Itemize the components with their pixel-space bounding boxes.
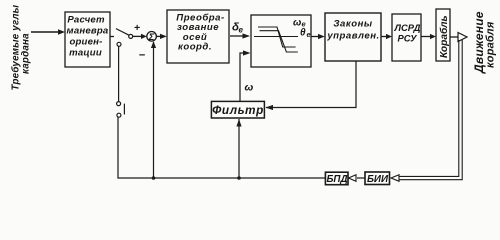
block: Законы управлен. [325, 13, 381, 61]
svg-text:РСУ: РСУ [397, 33, 417, 44]
svg-text:БПД: БПД [326, 174, 347, 185]
junction at summer feedback [152, 176, 156, 180]
svg-text:Корабль: Корабль [438, 15, 450, 58]
block: nonlinearity (phase-plane switch) [251, 15, 311, 67]
svg-text:кардана: кардана [21, 33, 32, 74]
wire: LSRD to ship [421, 36, 431, 38]
wire: input arrow into R1 [31, 31, 60, 33]
wire: bottom line up into filter [238, 119, 240, 178]
wire: nonlinearity to control laws [311, 36, 320, 38]
wire: ship motion feedback (double line) to BII [399, 40, 462, 180]
node: input label "Требуемые углы кардана" (rotated) [11, 4, 32, 90]
block: Расчет маневра ориентации [65, 12, 110, 67]
wire: filter output ω up into nonlinearity block [240, 53, 246, 101]
svg-text:Σ: Σ [148, 32, 155, 43]
switch SW2 (open, on left riser) [117, 46, 125, 117]
svg-text:е: е [307, 30, 311, 39]
svg-text:маневра: маневра [67, 26, 109, 37]
switch SW1 (selector, open) [116, 29, 133, 47]
svg-text:БИИ: БИИ [367, 174, 389, 185]
wire: ship output with hollow arrow [450, 36, 458, 38]
wire: delta_e into nonlinearity block [230, 35, 245, 37]
wire: bottom feedback line from BPD to left riser [118, 117, 325, 178]
svg-text:ЛСРД: ЛСРД [394, 22, 421, 33]
wire: control laws down into filter right side [266, 61, 356, 108]
svg-text:ω: ω [245, 82, 254, 94]
junction at filter feedback [237, 176, 241, 180]
svg-text:управлен.: управлен. [326, 31, 379, 42]
block: Фильтр [211, 101, 264, 118]
svg-text:Законы: Законы [333, 19, 373, 30]
svg-text:Фильтр: Фильтр [212, 103, 264, 117]
wire: block1 output to switch [110, 36, 114, 38]
block: БПД [325, 172, 348, 185]
svg-text:−: − [139, 50, 146, 62]
svg-text:коорд.: коорд. [178, 42, 212, 53]
summing junction Σ [147, 32, 157, 42]
wire: control laws to LSRD [381, 36, 387, 38]
block: Преобразование осей коорд. [167, 10, 229, 63]
svg-text:тации: тации [69, 47, 102, 58]
svg-text:ориен-: ориен- [69, 37, 102, 48]
wire: feedback up into summer (minus input) [153, 42, 155, 178]
wire: summer to block2 [156, 35, 162, 37]
block: ЛСРД РСУ [392, 14, 421, 61]
axis line [254, 36, 298, 38]
wire: BII to BPD with open arrow [357, 177, 365, 179]
curve 1 [258, 27, 296, 47]
svg-text:+: + [134, 22, 140, 34]
wire: switch to summer [133, 35, 142, 37]
svg-text:е: е [239, 26, 244, 35]
node: output label "Движение корабля" (rotated) [472, 11, 497, 74]
block: Корабль (ship) [436, 9, 450, 61]
svg-text:Расчет: Расчет [67, 15, 105, 26]
block: БИИ [365, 172, 390, 185]
svg-text:θ: θ [300, 28, 306, 39]
curve 2 [260, 31, 298, 52]
svg-text:корабля: корабля [485, 21, 497, 68]
